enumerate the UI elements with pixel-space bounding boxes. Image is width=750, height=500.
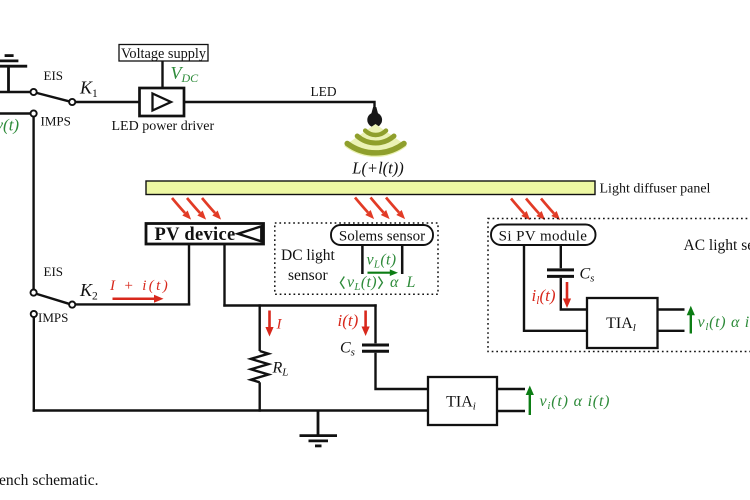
svg-text:TIAi: TIAi — [446, 393, 476, 412]
TIA_i box — [428, 377, 497, 425]
light diffuser panel — [146, 181, 595, 195]
svg-text:Voltage supply: Voltage supply — [121, 46, 207, 62]
wire: node to Cs branch corner — [223, 304, 376, 306]
svg-text:LED power driver: LED power driver — [112, 119, 215, 134]
switch K1 EIS throw contact — [30, 89, 36, 95]
svg-text:PV device: PV device — [155, 225, 236, 245]
light ray arrows onto Si PV module — [511, 199, 560, 221]
wire: K2 common node to PV left lead — [75, 303, 190, 305]
wire: TIA_l output top — [658, 308, 685, 310]
wire: Si PV right lead to Cs — [560, 245, 562, 268]
svg-text:LED: LED — [311, 84, 337, 99]
switch K1 IMPS throw contact — [30, 110, 36, 116]
ground (flipped, top-left) — [0, 56, 27, 93]
LED lamp — [367, 107, 382, 127]
wire: Solems sensor right lead — [401, 245, 404, 275]
svg-text:TIAl: TIAl — [606, 315, 636, 334]
wire: bottom rail — [33, 409, 429, 411]
wire: Si PV left lead to TIA_l bottom input — [524, 245, 588, 331]
light ray arrows onto PV device — [172, 198, 221, 220]
svg-text:I + i(t): I + i(t) — [109, 278, 170, 294]
switch K1 arm — [37, 93, 69, 101]
current arrow I+i(t) — [113, 295, 164, 303]
current arrow I — [265, 311, 273, 337]
svg-text:ench schematic.: ench schematic. — [0, 472, 99, 489]
svg-text:L: L — [406, 274, 416, 291]
svg-text:Light diffuser panel: Light diffuser panel — [600, 181, 711, 196]
label DC light sensor — [281, 247, 336, 284]
switch K2 common node — [69, 302, 75, 308]
svg-text:vL(t): vL(t) — [367, 251, 397, 270]
wire: Cs bottom lead to TIA_l top input — [561, 278, 588, 310]
wire: TIA_i output top — [497, 388, 525, 390]
svg-text:AC light sensor: AC light sensor — [684, 237, 750, 254]
wire: left edge to K1 EIS contact — [0, 91, 30, 93]
wire: left rail from K1 IMPS down to K2 EIS — [32, 117, 34, 290]
signal arrow v_l — [687, 306, 695, 334]
svg-text:il(t): il(t) — [532, 286, 556, 307]
capacitor Cs (DC branch) — [362, 345, 389, 351]
light ray arrows onto Solems sensor — [355, 198, 405, 220]
Solems sensor box — [331, 225, 433, 245]
voltage supply box — [119, 45, 208, 62]
svg-text:Solems sensor: Solems sensor — [339, 229, 425, 245]
wire: PV device right lead down to node — [223, 243, 225, 307]
wire: voltage supply to LED power driver — [161, 61, 163, 89]
op-amp LED power driver U1 — [140, 88, 185, 116]
wire: TIA_l output bottom — [658, 330, 685, 332]
label <vL(t)> prop L — [340, 274, 415, 293]
svg-text:Si PV module: Si PV module — [499, 229, 588, 245]
wire: TIA_i output bottom — [497, 410, 525, 412]
signal arrow vL(t) — [368, 269, 399, 276]
Si PV module box — [491, 225, 596, 246]
svg-text:sensor: sensor — [288, 267, 328, 284]
signal arrow v_i — [526, 386, 534, 416]
TIA_l box — [587, 298, 658, 348]
wire: LED power driver output to LED lamp — [183, 102, 375, 110]
svg-text:IMPS: IMPS — [38, 310, 68, 325]
svg-text:DC light: DC light — [281, 247, 336, 264]
AC light sensor dashed box — [488, 219, 750, 352]
current arrow i(t) — [362, 311, 370, 337]
svg-text:i(t): i(t) — [338, 311, 359, 330]
PV device box with diode triangle — [146, 224, 264, 246]
wire: Cs bottom lead to TIA_i input — [376, 353, 429, 389]
wire: PV device left lead down to K2 wire — [188, 243, 190, 306]
wire: K1 IMPS contact to left edge — [0, 112, 31, 114]
switch K1 common node — [69, 99, 75, 105]
switch K2 EIS throw contact — [30, 290, 36, 296]
wire: K1 common node to LED power driver input — [75, 101, 140, 103]
LED light glow — [344, 124, 407, 157]
svg-text:EIS: EIS — [44, 68, 64, 83]
resistor RL — [251, 304, 269, 411]
svg-text:I: I — [276, 317, 283, 333]
svg-text:IMPS: IMPS — [41, 114, 71, 129]
switch K2 arm — [37, 294, 69, 304]
svg-text:EIS: EIS — [44, 264, 64, 279]
svg-text:α: α — [390, 274, 399, 291]
wire: K2 IMPS contact down to bottom rail — [33, 317, 35, 412]
switch K2 IMPS throw contact — [31, 311, 37, 317]
wire: Cs top lead — [374, 304, 376, 343]
capacitor Cs (AC branch) — [547, 270, 574, 277]
wire: Solems sensor left lead — [361, 245, 364, 275]
DC light sensor dashed box — [275, 223, 438, 294]
ground (bottom) — [300, 411, 338, 446]
current arrow i_l — [563, 282, 571, 308]
svg-text:L(+l(t)): L(+l(t)) — [351, 158, 403, 177]
svg-text:v(t): v(t) — [0, 116, 19, 135]
svg-text:vL(t): vL(t) — [347, 274, 377, 293]
